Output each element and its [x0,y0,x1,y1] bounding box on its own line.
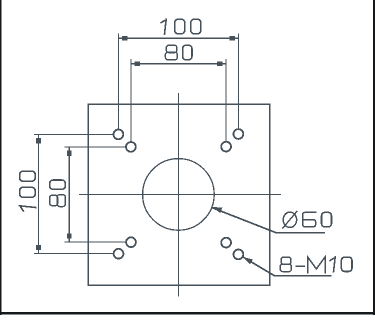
window frame right border [373,0,375,315]
dimension tick left (100 top) [122,36,127,41]
extension line from top-right inner hole up [225,59,227,141]
extension line from top-left inner hole left [65,146,126,148]
dimension text 80 left (rotated) [50,180,66,207]
central circle D60 [143,159,215,231]
dimension tick bottom (100 left) [36,245,41,250]
dimension text 80 top [165,45,192,60]
extension line from bottom-left hole left [34,253,113,255]
leader arrowhead at circle [212,207,222,213]
extension line from top-right hole up [237,34,239,129]
hole top-right inner (80 pattern) [221,142,231,152]
dimension text 100 left (rotated) [19,171,35,211]
dimension line 80 left [68,147,70,242]
extension line from top-left hole up [117,34,119,130]
dimension tick right (80 top) [217,62,222,67]
hole top-left inner (80 pattern) [126,142,136,152]
dimension text 100 top [161,19,201,34]
hole bottom-right outer (100 pattern) [234,250,244,260]
leader arrowhead at hole [243,257,253,265]
extension line from top-left inner hole up [130,59,132,141]
hole bottom-left outer (100 pattern) [114,249,124,259]
window frame bottom border [0,312,375,315]
hole top-left outer (100 pattern) [114,130,124,140]
label text 8-M10 [280,257,352,273]
dimension tick right (100 top) [230,36,235,41]
leader line to circle (D60) [212,208,324,233]
dimension tick left (80 top) [135,62,140,67]
window frame left border [0,0,1,315]
horizontal centerline [79,193,281,195]
dimension line 100 left [38,134,40,253]
dimension tick top (100 left) [36,138,41,143]
hole bottom-left inner (80 pattern) [126,237,136,247]
dimension tick bottom (80 left) [67,233,72,238]
label text D60 [283,211,332,228]
dimension line 80 top [131,63,226,65]
dimension line 100 top [118,37,238,39]
hole bottom-right inner (80 pattern) [221,238,231,248]
leader line to hole (8-M10) [243,257,331,276]
extension line from bottom-left inner hole left [65,241,126,243]
hole top-right outer (100 pattern) [234,129,244,139]
plate outline [88,104,269,285]
dimension tick top (80 left) [67,150,72,155]
vertical centerline [177,93,179,297]
extension line from top-left hole left [34,133,113,135]
